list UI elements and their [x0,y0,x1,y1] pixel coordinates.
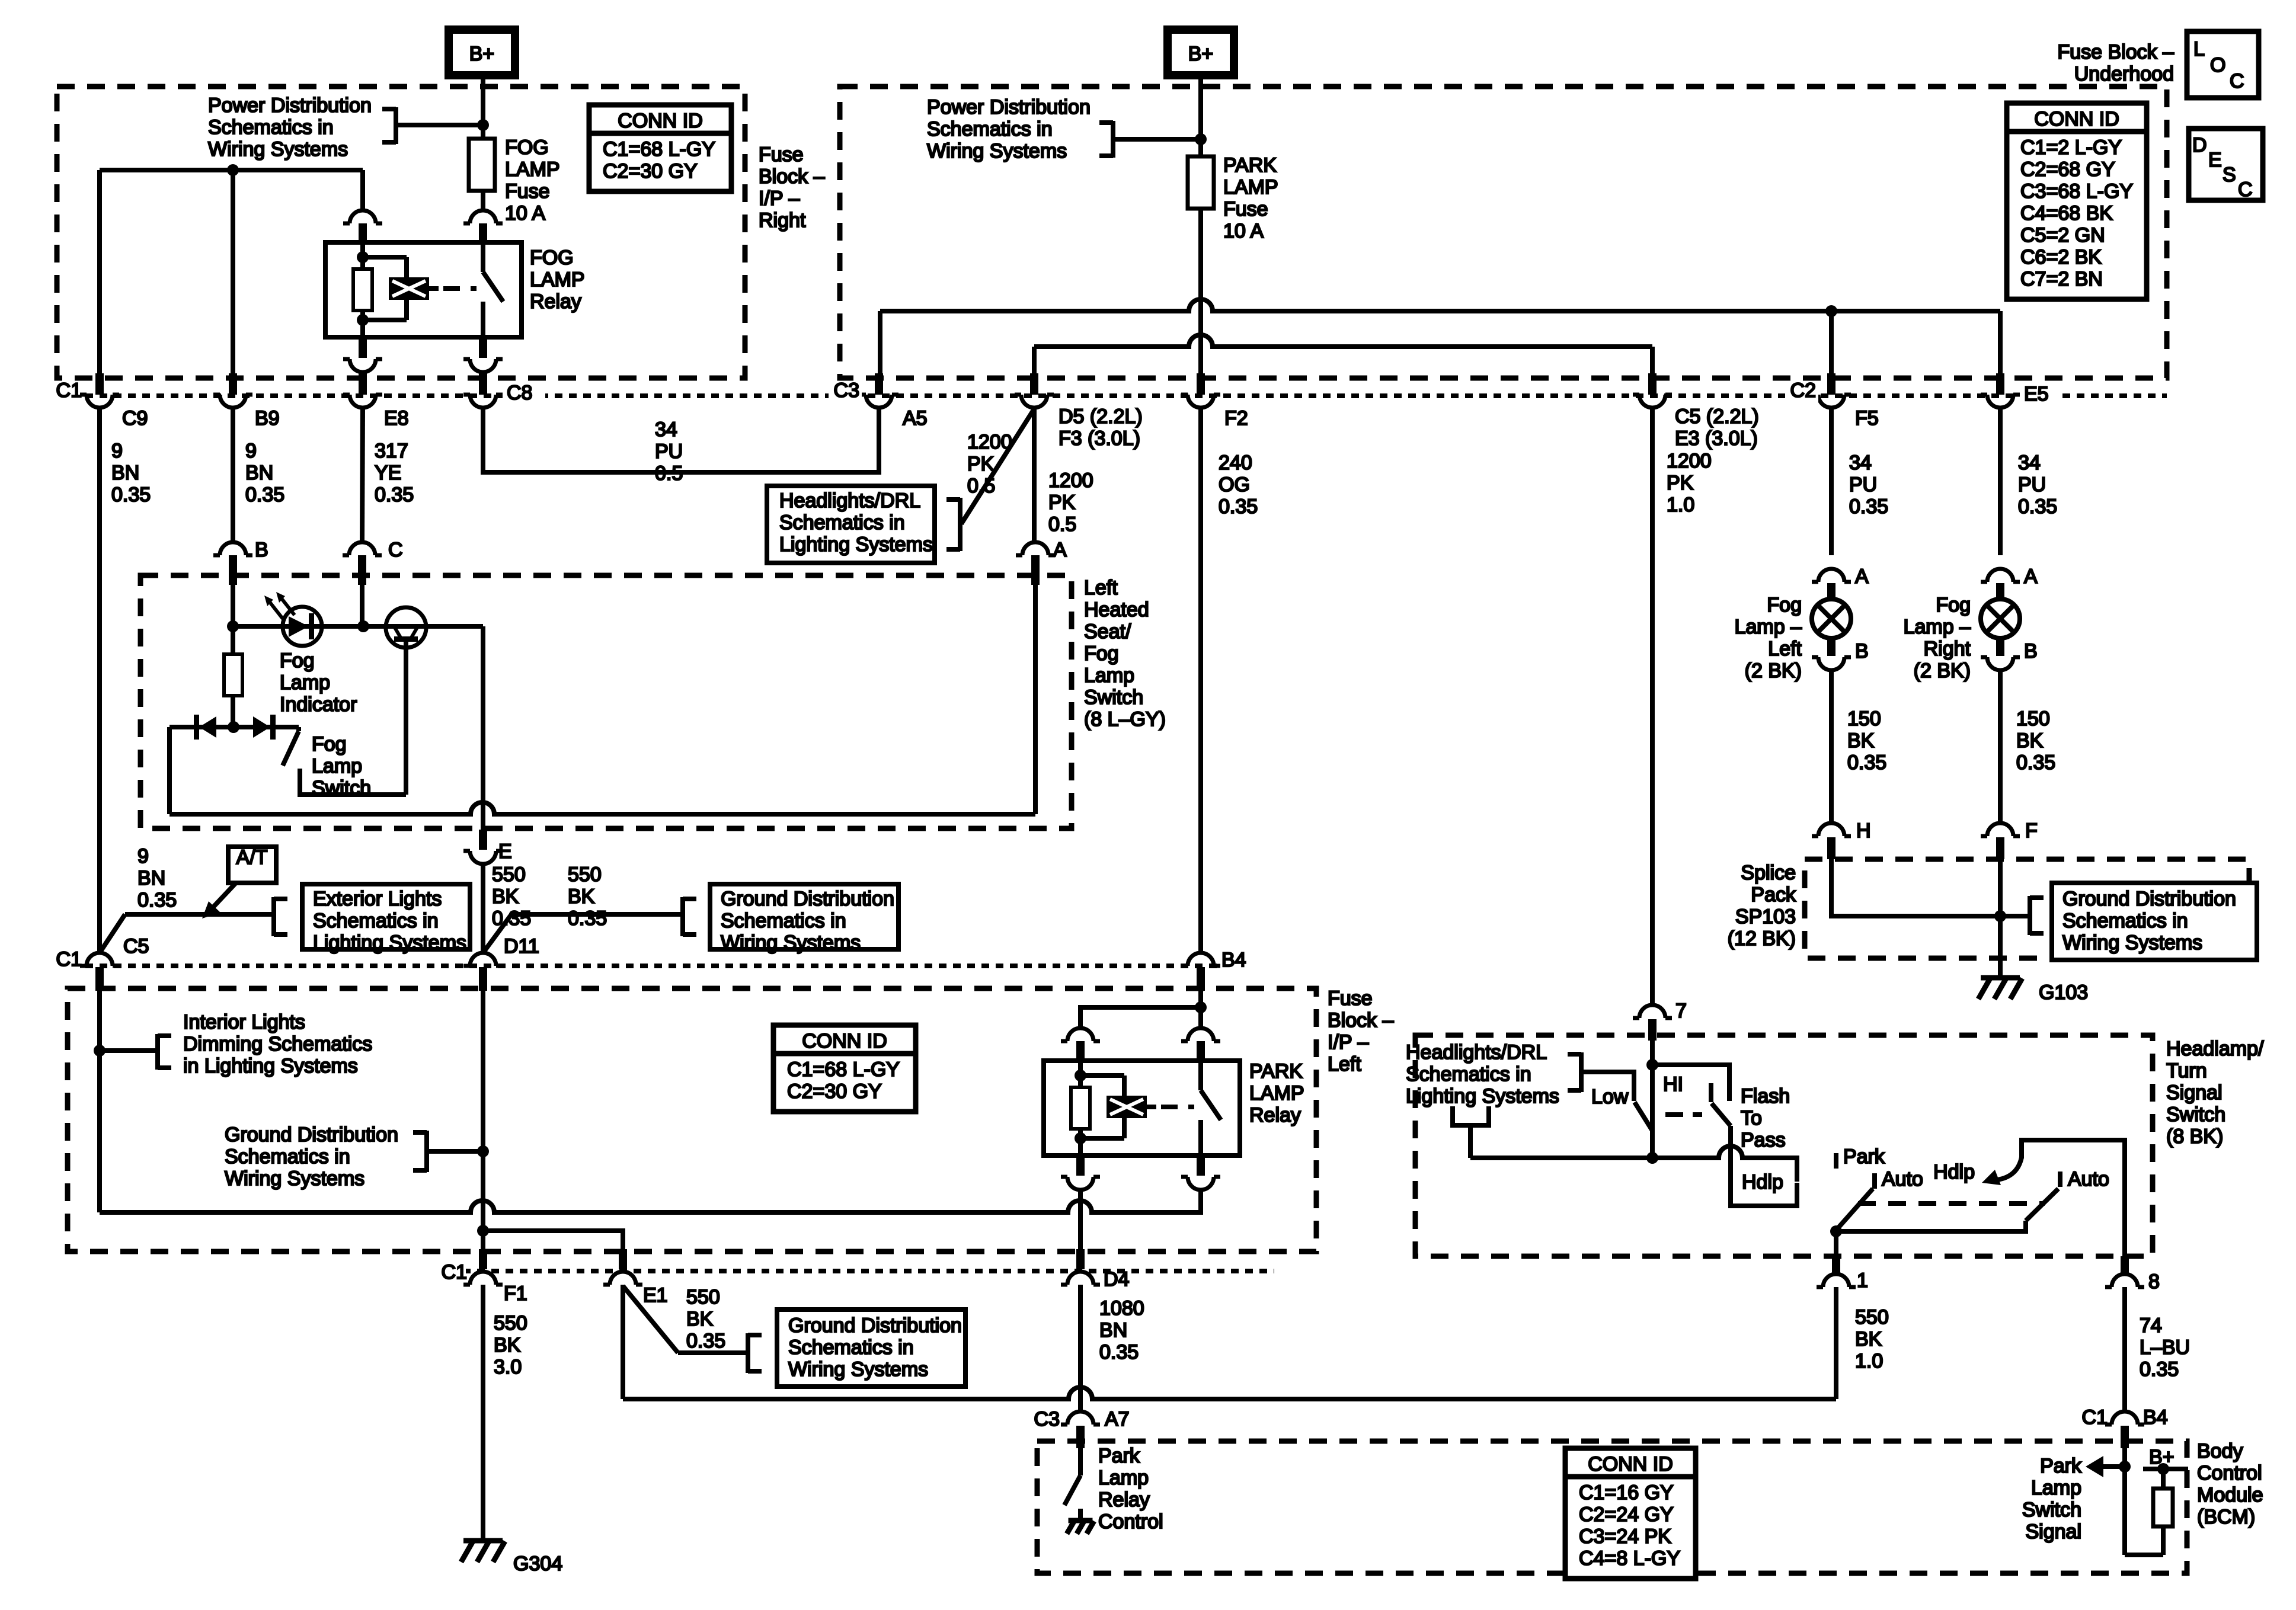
svg-text:Auto: Auto [1882,1168,1923,1190]
junction dot B+1 [477,119,489,131]
connector 1 [1817,1256,1856,1287]
wire to ground dist bracket [511,912,683,917]
label HI [1663,1073,1683,1096]
reference Ground Distribution row2 box [710,884,898,954]
A/T arrow [202,883,236,918]
wire label 1200 PK 0.5 (D5) [1048,469,1093,536]
wire C5 column in I/P left [97,991,102,1212]
label B+ BCM [2149,1446,2175,1468]
wire F1 to G304 [481,1285,485,1541]
svg-text:G304: G304 [513,1553,562,1575]
ground park lamp relay control [1067,1521,1094,1534]
fog lamp left bulb [1812,599,1851,638]
svg-text:B: B [255,539,268,561]
park lamp switch signal arrow [2086,1456,2125,1477]
label Headlamp Turn Signal Switch [2166,1038,2264,1148]
label C3 row4 [1034,1408,1060,1430]
svg-text:A: A [2024,565,2038,588]
connector F2 [1181,373,1220,408]
label C1 row3 [442,1261,467,1283]
svg-text:C3=68 L-GY: C3=68 L-GY [2020,180,2133,203]
connector E pair [463,830,503,864]
wire B9 to connector B [231,408,235,542]
headlamp ground rail [623,1387,1836,1399]
bracket headlights DRL switch [1568,1052,1581,1092]
fog lamp switch contact [300,769,406,795]
connector C2/F5 [1812,373,1851,408]
label Fog Lamp Left (2 BK) [1735,594,1802,682]
svg-text:D11: D11 [504,935,539,958]
wire fog lamp left down [1829,670,1834,823]
svg-text:C1: C1 [56,948,82,971]
wire label 550 BK 0.35 (E1) [686,1286,725,1352]
white patch C1 label row3 [433,1257,466,1285]
connector B fog lamp left [1812,637,1851,670]
wire splice to G103 [1998,916,2003,978]
junction dot B row [227,620,239,632]
svg-text:B9: B9 [255,407,280,430]
connector 8 [2105,1256,2144,1287]
wire lower rail underhood [1034,335,1652,375]
reference Ground Distribution (F1) text [225,1124,398,1190]
label B4 row2 [1221,949,1246,971]
label Fuse Block - I/P - Left [1328,987,1394,1076]
label C1 row2 [56,948,82,971]
svg-text:C5=2 GN: C5=2 GN [2020,224,2105,247]
wire transistor to E column [481,626,485,831]
junction dot F1 to E1 [477,1225,489,1237]
wire B4 into box [1198,991,1203,1029]
svg-text:E: E [2208,149,2222,171]
fog lamp right bulb [1981,599,2020,638]
indicator row wire [233,624,483,629]
svg-text:O: O [2210,54,2225,76]
label Flash To Pass [1741,1085,1790,1151]
svg-text:C: C [2230,70,2244,92]
junction dot auto arm [1830,1225,1842,1237]
svg-text:B4: B4 [1221,949,1246,971]
wire E5 lamp column [1998,409,2003,555]
wire BCM input [2122,1447,2127,1555]
wire E to D11 [481,864,485,952]
junction dot B9 top [227,164,239,176]
white patch C2 label row1 [1785,382,1818,408]
diode row wire [170,727,299,814]
wire D4 down to A7 [1078,1285,1083,1411]
svg-text:A: A [1855,565,1869,588]
svg-text:Hdlp: Hdlp [1933,1161,1975,1183]
svg-text:C1=68 L-GY: C1=68 L-GY [603,138,715,161]
wire 1 to rail [1834,1287,1838,1399]
white patch C3 label row1 [829,382,862,408]
fuse block underhood dashed box [840,87,2167,378]
label C8 [507,382,532,404]
svg-text:C: C [2238,178,2253,201]
white patch C1 label row1 [55,382,85,408]
dotted connector row 3 [434,1269,1274,1273]
svg-text:E1: E1 [643,1284,668,1307]
svg-text:C2=24 GY: C2=24 GY [1579,1503,1674,1526]
label B fog lamp left [1855,640,1869,662]
wire F1 to E1 branch [483,1231,623,1250]
label Low [1591,1086,1629,1108]
label Hdlp 2 [1933,1161,1975,1183]
svg-text:PARKLAMPRelay: PARKLAMPRelay [1249,1060,1304,1126]
park lamp relay control switch [1064,1448,1080,1523]
svg-text:Auto: Auto [2068,1168,2109,1190]
svg-text:C1=16 GY: C1=16 GY [1579,1481,1674,1504]
wire F5 drop [1829,311,1834,375]
svg-text:CONN ID: CONN ID [2034,108,2119,130]
connector C5/E3 [1633,373,1672,408]
svg-text:C1: C1 [2082,1406,2108,1429]
LED fog lamp indicator [283,607,322,646]
wire C5/E3 to 7 [1650,992,1655,1006]
fuse PARK LAMP 10A [1188,139,1214,375]
bracket ground dist row2 [683,897,696,936]
svg-text:CONN ID: CONN ID [618,110,703,132]
conn id table bottom [1565,1448,1696,1579]
conn id table I/P right [589,105,731,191]
connector H [1812,823,1851,859]
label C2 row1 [1790,379,1816,402]
svg-text:D4: D4 [1104,1268,1129,1291]
BCM pullup resistor [2153,1469,2173,1555]
svg-text:E: E [498,840,512,863]
junction dot C row [357,620,369,632]
label C5 E3 [1675,405,1759,450]
connector D11 [463,953,503,991]
label B9 [255,407,280,430]
reference Headlights/DRL schematics (top) [767,486,935,563]
label E8 [384,407,409,430]
svg-text:Fuse Block –Underhood: Fuse Block –Underhood [2057,41,2174,85]
svg-text:Hdlp: Hdlp [1742,1171,1783,1193]
bracket headlights DRL top [946,498,960,551]
wire splice to bracket [2000,914,2030,918]
wire C9 column to C5 [97,408,102,953]
wire label 1200 PK 1.0 [1667,450,1712,516]
label 1 [1857,1269,1868,1292]
hdlp2 curved arrow [1982,1157,2022,1185]
label C1 BCM [2082,1406,2108,1429]
park contact [1834,1153,1838,1169]
label FOG LAMP Fuse 10 A [505,136,560,225]
label Fog Lamp Right (2 BK) [1904,594,1971,682]
bracket ground dist splice [2030,896,2044,935]
wire label 1080 BN 0.35 [1099,1297,1144,1363]
connector 7 [1633,1005,1672,1041]
connector B fog lamp right [1981,637,2020,670]
label D5 F3 [1059,405,1143,450]
auto contact 1 [1872,1173,1877,1189]
wire park switch to return [1198,1190,1203,1212]
white patch C8 [503,383,545,410]
junction dot HI [1646,1059,1658,1071]
label A7 [1105,1408,1130,1430]
label B4 BCM [2143,1406,2168,1429]
svg-text:C9: C9 [122,407,148,430]
diode left [194,715,216,740]
HI contact [1652,1065,1729,1101]
label F1 [504,1282,527,1305]
svg-text:C5: C5 [123,935,149,958]
svg-text:7: 7 [1675,1000,1687,1022]
label FOG LAMP Relay [530,247,585,313]
svg-text:C7=2 BN: C7=2 BN [2020,268,2103,290]
label Fog Lamp Indicator [280,649,357,716]
wire label 150 BK 0.35 right [2016,708,2055,774]
connector pair park coil bottom [1061,1156,1100,1190]
dotted connector row 1 [57,393,2167,398]
relay switch return wire [100,1190,1201,1212]
junction dot B+ BCM [2157,1463,2169,1475]
BCM bottom wire [2125,1553,2163,1557]
wire label 9 BN 0.35 (C5) [137,845,177,911]
ground G304 [461,1541,505,1562]
label Splice Pack SP103 (12 BK) [1728,862,1796,950]
wire 1 drop [1834,1231,1838,1257]
reference Ground Distribution splice box [2052,883,2257,960]
junction dot interior lights [94,1045,105,1057]
svg-text:A/T: A/T [236,846,268,869]
fog lamp switch dashed box [140,575,1072,828]
diode right [253,715,276,740]
label A [1053,539,1067,561]
wire bracket to Low [1581,1072,1634,1101]
label E [498,840,512,863]
wire E8 below relay [360,372,365,375]
label G103 [2039,981,2088,1004]
B+ battery feed 1 [449,30,515,75]
park auto rail [1836,1221,2026,1231]
label 8 [2148,1270,2160,1293]
fuse block I/P right dashed box [57,87,745,378]
svg-text:CONN ID: CONN ID [1588,1453,1673,1475]
svg-text:C: C [388,539,403,561]
svg-text:B: B [1855,640,1869,662]
junction dot F5 rail [1825,305,1837,317]
label C3 row1 [834,379,859,402]
wire 7 into box [1650,1041,1655,1157]
label F2 [1224,407,1248,430]
wire C8 to A5 U-turn [483,408,879,472]
svg-text:C3: C3 [1034,1408,1060,1430]
label C5 [123,935,149,958]
svg-text:CONN ID: CONN ID [802,1030,887,1052]
resistor fog indicator [224,626,242,728]
connector C3/A5 [859,373,898,408]
connector D5/F3 [1015,373,1054,408]
bracket exterior lights [274,897,287,936]
label Fuse Block - I/P - Right [759,143,825,232]
connector A fog lamp left [1812,569,1851,601]
svg-text:C2=30 GY: C2=30 GY [787,1080,882,1103]
connector pair park coil top [1061,1028,1100,1061]
fog box bottom rail [170,802,1035,814]
wire label 9 BN 0.35 (C9) [111,440,151,506]
label Park [1843,1145,1885,1168]
junction dot park lamp switch signal [2119,1461,2131,1473]
wire bracket to B+2 [1113,137,1201,142]
svg-text:F2: F2 [1224,407,1248,430]
svg-text:F1: F1 [504,1282,527,1305]
label Hdlp 1 [1742,1171,1783,1193]
bracket ground dist F1 [413,1131,427,1172]
connector pair relay switch bottom [463,338,503,372]
wire C2/F5 lamp column [1829,409,1834,555]
svg-text:D: D [2192,134,2207,156]
connector C1/B4 BCM [2105,1411,2144,1448]
label C [388,539,403,561]
wire bracket to F1 column [427,1149,483,1154]
svg-text:C2: C2 [1790,379,1816,402]
junction dot diode row [228,721,239,733]
junction dot splice [1994,910,2006,922]
wire H to splice [1831,859,2000,916]
svg-text:HI: HI [1663,1073,1683,1096]
conn id table underhood [2007,103,2147,299]
connector A [1016,542,1055,585]
junction dot B+2 [1195,133,1207,145]
white patch E5 [2020,383,2062,410]
label B fog lamp right [2024,640,2038,662]
wire F2 column down [1198,409,1203,951]
wire A into box [1033,585,1038,814]
connector E5 [1981,373,2020,408]
svg-text:B+: B+ [469,43,495,65]
wire label 74 L-BU 0.35 [2140,1314,2190,1381]
relay FOG LAMP [325,242,522,337]
svg-text:C1=68 L-GY: C1=68 L-GY [787,1058,900,1081]
wire to park relay coil [1080,1007,1201,1029]
svg-text:F: F [2025,820,2038,842]
B+ bar BCM [2143,1467,2188,1471]
connector E1 [603,1249,642,1285]
svg-text:C2=30 GY: C2=30 GY [603,160,698,183]
connector A fog lamp right [1981,569,2020,601]
svg-text:S: S [2223,164,2236,186]
label 7 [1675,1000,1687,1022]
svg-text:B: B [2024,640,2038,662]
svg-text:C6=2 BK: C6=2 BK [2020,246,2102,268]
reference Power Distribution (left) [208,94,372,161]
wire F to splice [1998,859,2003,916]
dimmer rail [1470,1146,1797,1182]
flash to pass contact [1709,1083,1713,1102]
hdlp2 riser [2022,1140,2125,1257]
connector B4 row2 [1181,953,1220,991]
connector pair park switch top [1181,1028,1220,1061]
svg-text:A: A [1053,539,1067,561]
fuse FOG LAMP 10A [469,125,495,210]
label D11 [504,935,539,958]
wire B+1 down [481,75,485,124]
label Park Lamp Relay Control [1098,1445,1163,1533]
wire park coil down to D4 [1078,1190,1083,1250]
label C1 row1 [56,379,82,402]
reference Headlights/DRL text (switch) [1406,1041,1559,1108]
wire label 1200 PK 0.5 (diagonal) [967,431,1012,497]
bracket power distribution right [1099,121,1113,158]
label PARK LAMP Relay [1249,1060,1304,1126]
DESC box [2189,129,2263,201]
svg-text:D5 (2.2L)F3 (3.0L): D5 (2.2L)F3 (3.0L) [1059,405,1143,450]
svg-text:A7: A7 [1105,1408,1130,1430]
auto switch arm 2 [2026,1189,2058,1221]
connector C [343,542,382,585]
label A5 [903,407,928,430]
svg-text:E8: E8 [384,407,409,430]
ground G103 [1978,978,2022,999]
svg-text:B+: B+ [1188,43,1214,65]
fog lamp switch arm [283,727,299,766]
label F [2025,820,2038,842]
connector pair park switch bottom [1181,1156,1220,1190]
wire label 240 OG 0.35 [1219,452,1258,518]
bracket under headlights text [1453,1106,1489,1125]
wire label 317 YE 0.35 (E8) [375,440,414,506]
B+ battery feed 2 [1168,30,1234,75]
svg-text:L: L [2193,38,2205,60]
white patch C1 label row2 [55,950,85,978]
diagonal D11 to ground dist [483,914,511,953]
wire label 550 BK 1.0 [1855,1306,1889,1372]
label G304 [513,1553,562,1575]
reference Power Distribution (right) [927,96,1091,162]
mechanical link park auto [1858,1201,2045,1206]
label F5 [1855,407,1879,430]
connector pair relay coil bottom [343,338,382,372]
LOC box [2187,31,2259,98]
bottom dashed box [1037,1441,2187,1573]
wire B+2 down [1198,75,1203,138]
wire B9 column upper [231,170,235,375]
low beam switch arm [1635,1102,1652,1131]
label D4 [1104,1268,1129,1291]
connector C8 [463,373,503,408]
connector C9 [80,373,119,408]
reference Interior Lights text [183,1011,372,1077]
diagonal C5 to exterior lights [100,914,125,953]
svg-text:G103: G103 [2039,981,2088,1004]
reference Exterior Lights box [302,884,470,954]
connector E8 [343,373,382,408]
A/T box [228,846,276,883]
wire label 150 BK 0.35 left [1847,708,1886,774]
wire label 550 BK 3.0 [494,1312,527,1378]
svg-text:1: 1 [1857,1269,1868,1292]
connector D4 [1061,1249,1100,1285]
relay PARK LAMP [1044,1061,1240,1156]
wire label 9 BN 0.35 (B9) [245,440,284,506]
label B [255,539,268,561]
headlamp turn signal dashed box [1415,1035,2153,1256]
label Body Control Module BCM [2197,1440,2263,1528]
wire label 34 PU 0.35 (right) [2018,452,2057,518]
splice pack dashed box [1805,859,2249,958]
reference Ground Distribution E1 box [777,1310,965,1387]
wire label 34 PU 0.35 (left) [1849,452,1888,518]
svg-text:C2=68 GY: C2=68 GY [2020,158,2115,181]
wire upper rail underhood [880,299,2000,375]
wire E1 down [621,1285,625,1399]
auto switch arm 1 [1836,1189,1873,1230]
junction dot park relay feed [1195,1001,1207,1013]
junction dot dimmer [1646,1152,1658,1164]
connector C5 [80,953,119,991]
transistor [386,607,426,795]
